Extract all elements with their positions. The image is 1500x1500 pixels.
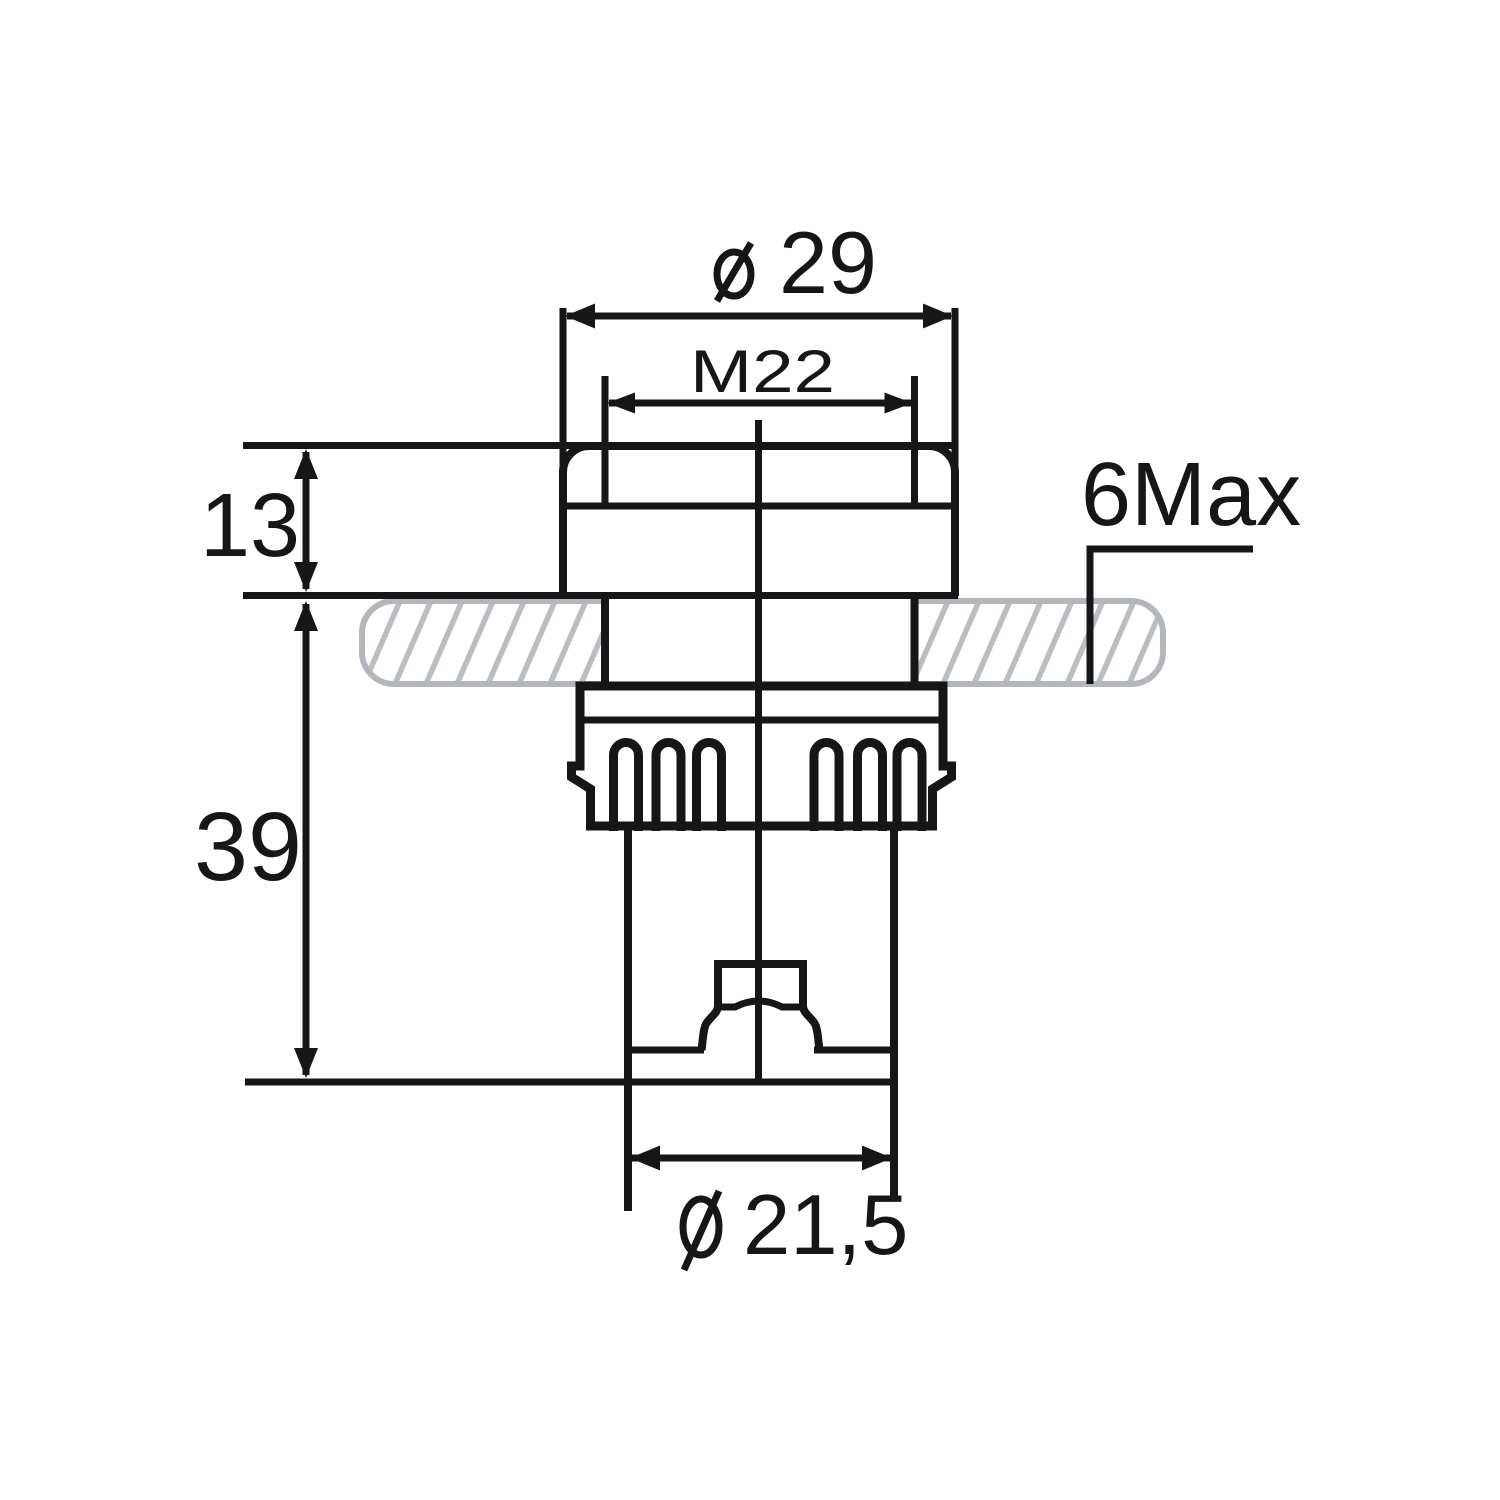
extension line: bottom of body (39 datum) [245,1079,896,1086]
dimension 39 arrows [303,604,310,1075]
terminal block [718,964,803,1008]
nut slot 2 [656,743,681,832]
nut slot 4 [814,743,839,832]
svg-text:13: 13 [200,476,300,576]
label ø29 [717,252,751,296]
dimension line ø29 [567,313,951,320]
panel cutaway left (hatched) [302,601,648,684]
nut slot 5 [858,743,883,832]
dimension 13 arrows [303,452,310,589]
svg-text:M22: M22 [690,338,835,405]
body shoulder line right [814,1047,894,1054]
extension line: top of cap (13 datum) [243,442,955,449]
extension line: panel face (13/39 datum) [243,592,958,599]
dimension line M22 [609,400,911,407]
svg-text:39: 39 [194,792,302,901]
threaded shaft left side [601,595,609,688]
extension lines M22 [602,376,609,506]
nut slot 3 [697,743,722,832]
body shoulder line left [628,1047,704,1054]
svg-text:6Max: 6Max [1081,445,1301,545]
mounting nut outline [572,686,952,826]
button cap (head) [563,446,955,596]
svg-text:21,5: 21,5 [743,1178,908,1273]
nut washer line [580,717,943,724]
dimension line ø21,5 [632,1155,890,1162]
centre line [755,420,762,1080]
nut slot 6 [897,743,922,832]
threaded shaft right side [911,595,919,688]
body right side / ø21,5 extension [890,826,898,1200]
label ø21,5 [683,1199,719,1255]
nut slot 1 [614,743,639,832]
extension lines ø29 [560,308,567,500]
panel cutaway right (hatched) [850,601,1196,684]
leader line 6Max [1090,549,1253,684]
body left side / ø21,5 extension [624,826,632,1211]
svg-text:29: 29 [779,213,877,312]
